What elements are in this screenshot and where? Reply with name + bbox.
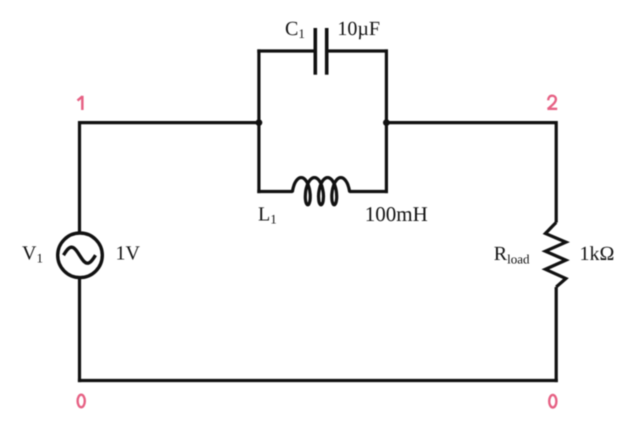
wire bottom node 0 <box>78 379 558 382</box>
wire left vertical upper <box>78 121 81 232</box>
wire left vertical lower <box>78 278 81 382</box>
wire capacitor right lead <box>328 49 388 52</box>
resistor Rload zigzag <box>545 222 566 287</box>
inductor L1 coil <box>293 178 350 205</box>
capacitor C1 plates <box>315 28 326 75</box>
svg-text:1kΩ: 1kΩ <box>580 243 615 265</box>
node junction dot right <box>383 119 390 126</box>
svg-text:C1: C1 <box>285 18 305 41</box>
svg-text:10µF: 10µF <box>337 18 380 40</box>
svg-text:L1: L1 <box>258 204 277 227</box>
svg-text:V1: V1 <box>22 242 43 265</box>
wire top-right segment node 2 <box>386 121 556 124</box>
node label 2 <box>547 96 557 109</box>
node label 0 left <box>78 395 85 408</box>
wire capacitor left lead <box>257 49 313 52</box>
svg-text:Rload: Rload <box>494 243 530 266</box>
svg-text:100mH: 100mH <box>365 202 428 226</box>
node label 0 right <box>549 395 556 408</box>
wire inductor left lead <box>257 190 292 193</box>
wire LC right branch vertical <box>385 49 388 193</box>
wire LC left branch vertical <box>257 49 260 193</box>
wire inductor right lead <box>350 190 389 193</box>
source V1 sine wave <box>64 247 96 263</box>
node junction dot left <box>256 119 263 126</box>
wire top-left segment node 1 <box>80 121 259 124</box>
wire right vertical upper <box>555 121 558 223</box>
node label 1 <box>78 96 83 110</box>
svg-text:1V: 1V <box>116 242 141 264</box>
wire right vertical lower <box>555 287 558 382</box>
source V1 circle <box>58 233 103 278</box>
